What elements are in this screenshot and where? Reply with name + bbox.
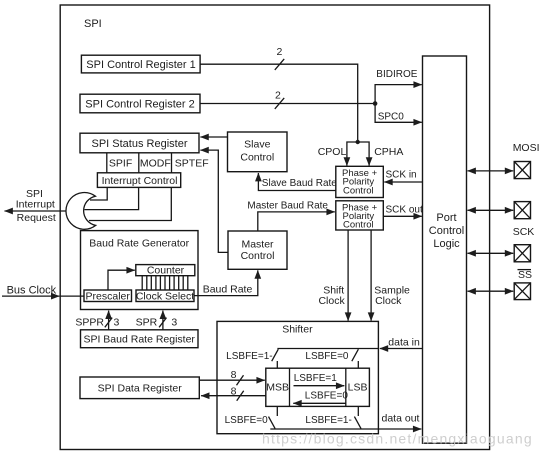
svg-text:SPI Control Register 1: SPI Control Register 1 — [86, 59, 195, 71]
Phase + Polarity Control 1 (U-phase1) — [336, 166, 384, 197]
wire+arrow: prescaler to counter — [108, 270, 135, 290]
wire: control register 1 to CPOL/CPHA junction — [200, 64, 358, 142]
svg-text:LSBFE=1: LSBFE=1 — [294, 373, 338, 384]
wire+arrow: SCK out from Phase+Polarity 2 to Port Control Logic — [383, 215, 422, 217]
Baud Rate Generator box — [81, 231, 199, 310]
wire+arrow: data out to Port Control Logic — [270, 412, 421, 429]
svg-text:Clock: Clock — [375, 295, 402, 307]
svg-text:LSBFE=0: LSBFE=0 — [305, 351, 349, 362]
bus width slash 2 on control register 2 wire — [275, 89, 284, 109]
wire: data in routing inside shifter — [277, 348, 378, 350]
svg-text:SS: SS — [518, 269, 532, 281]
svg-text:SPTEF: SPTEF — [175, 158, 209, 170]
svg-text:SPI: SPI — [84, 18, 102, 30]
wire+arrow: baud rate to master control — [194, 270, 258, 295]
svg-text:LSBFE=0: LSBFE=0 — [305, 391, 349, 402]
wire: MODF to OR gate — [85, 187, 139, 209]
svg-text:https://blog.csdn.net/mengxiao: https://blog.csdn.net/mengxiaoguang — [262, 430, 533, 446]
SPI Status Register — [80, 133, 199, 153]
node: CPOL/CPHA split junction — [356, 140, 360, 144]
wire+arrow LSBFE=1 shift direction MSB to LSB — [294, 373, 345, 386]
svg-text:Slave: Slave — [244, 139, 270, 151]
wire+arrow: data in from Port Control Logic — [380, 336, 423, 348]
SPI Data Register — [80, 377, 199, 399]
svg-text:Baud Rate: Baud Rate — [203, 284, 253, 296]
wire+arrow: master baud rate from Master Control to Phase+Polarity 2 — [258, 212, 335, 231]
wire+arrow LSBFE=0 shift direction LSB to MSB — [293, 391, 348, 404]
svg-text:MSB: MSB — [266, 381, 289, 393]
svg-text:SCK out: SCK out — [386, 205, 423, 216]
svg-text:Port: Port — [436, 212, 456, 224]
wire+arrow SPPR with width slash 3 — [75, 311, 119, 330]
svg-text:Counter: Counter — [147, 265, 185, 277]
wire CPOL arrow into Phase+Polarity Control 1 — [347, 142, 358, 166]
svg-text:BIDIROE: BIDIROE — [376, 69, 417, 80]
svg-text:Slave Baud Rate: Slave Baud Rate — [262, 178, 337, 189]
svg-text:SCK in: SCK in — [386, 169, 417, 180]
wire+arrow: MSB to data register with slash 8 — [201, 386, 266, 401]
svg-text:CPOL: CPOL — [318, 146, 347, 158]
svg-text:SPI Status Register: SPI Status Register — [92, 138, 188, 150]
Prescaler — [84, 290, 132, 302]
shift register MSB/LSB cells — [266, 368, 370, 406]
svg-text:Baud Rate Generator: Baud Rate Generator — [89, 237, 189, 249]
wire+arrow: SCK in from Port Control Logic to Phase+Polarity 1 — [384, 181, 422, 183]
svg-text:8: 8 — [231, 369, 237, 381]
wire+arrow: sample clock to shifter — [371, 230, 410, 321]
svg-text:SCK: SCK — [513, 226, 535, 238]
label SPI Interrupt Request — [16, 188, 56, 224]
svg-text:SPI Control Register 2: SPI Control Register 2 — [85, 98, 194, 110]
svg-text:LSB: LSB — [348, 381, 368, 393]
outer SPI module box — [60, 5, 489, 450]
Phase + Polarity Control 2 (U-phase2) — [336, 201, 384, 231]
svg-text:LSBFE=1-: LSBFE=1- — [305, 415, 351, 426]
svg-text:Request: Request — [17, 212, 56, 224]
svg-text:Clock Select: Clock Select — [136, 290, 194, 302]
svg-text:Logic: Logic — [433, 238, 460, 250]
svg-text:Control: Control — [343, 185, 374, 196]
svg-text:SPI Data Register: SPI Data Register — [98, 383, 183, 395]
OR gate — [66, 193, 96, 230]
switch LSBFE=0 top middle — [305, 349, 358, 368]
svg-text:MODF: MODF — [140, 158, 171, 170]
bus width slash 2 on control register 1 wire — [275, 46, 284, 70]
svg-text:Interrupt: Interrupt — [16, 198, 55, 210]
wire+arrow: data register to MSB with slash 8 — [199, 369, 264, 385]
svg-text:Prescaler: Prescaler — [86, 290, 131, 302]
svg-text:2: 2 — [277, 46, 283, 58]
svg-text:LSBFE=1-: LSBFE=1- — [226, 351, 272, 362]
Counter — [136, 265, 195, 277]
wire+arrow: to status register and master control — [200, 150, 228, 252]
svg-text:Clock: Clock — [318, 295, 345, 307]
svg-text:SPI Baud Rate Register: SPI Baud Rate Register — [83, 334, 195, 346]
svg-text:CPHA: CPHA — [374, 146, 403, 158]
pin SCK — [468, 226, 535, 262]
svg-text:SPPR: SPPR — [75, 317, 104, 329]
svg-text:Control: Control — [429, 225, 464, 237]
svg-text:2: 2 — [275, 89, 281, 101]
clock select tap lines — [142, 276, 188, 290]
Interrupt Control — [97, 173, 180, 188]
switch LSBFE=0 bottom left — [225, 406, 278, 428]
svg-text:8: 8 — [231, 386, 237, 398]
svg-text:LSBFE=0: LSBFE=0 — [225, 415, 269, 426]
Slave Control — [228, 132, 288, 172]
wire+arrow: shift clock to shifter — [318, 230, 348, 321]
svg-text:3: 3 — [114, 317, 120, 329]
switch LSBFE=1 bottom middle — [305, 406, 361, 428]
SPI Control Register 1 — [81, 55, 200, 73]
SPI Baud Rate Register — [81, 330, 199, 348]
svg-text:data in: data in — [388, 336, 420, 348]
svg-text:Control: Control — [241, 250, 275, 262]
svg-text:SPR: SPR — [136, 317, 158, 329]
svg-text:Control: Control — [343, 220, 374, 231]
Shifter box — [217, 321, 378, 433]
switch LSBFE=1 top left — [226, 349, 278, 368]
wire CPHA arrow into Phase+Polarity Control 1 — [358, 142, 369, 166]
pin MOSI — [468, 142, 540, 179]
wire SPC0 arrow into Port Control Logic — [375, 104, 422, 123]
svg-text:SPC0: SPC0 — [378, 112, 405, 123]
pin SS (active low) — [468, 269, 533, 300]
wire+arrow: slave control to SPI status register — [200, 136, 227, 138]
wire BIDIROE arrow into Port Control Logic — [375, 85, 422, 104]
svg-text:3: 3 — [171, 317, 177, 329]
wire+arrow SPR with width slash 3 — [136, 311, 178, 330]
svg-text:SPIF: SPIF — [109, 158, 132, 170]
status flag cells SPIF MODF SPTEF — [107, 153, 209, 173]
svg-text:Bus Clock: Bus Clock — [7, 284, 57, 296]
Master Control — [228, 231, 287, 269]
svg-text:Shifter: Shifter — [282, 323, 313, 335]
svg-text:MOSI: MOSI — [513, 142, 540, 154]
Clock Select — [136, 290, 194, 302]
wire: SPIF to OR gate — [90, 187, 107, 200]
svg-text:Master Baud Rate: Master Baud Rate — [247, 200, 328, 211]
Port Control Logic — [423, 56, 467, 443]
svg-text:data out: data out — [382, 412, 420, 424]
wire: control register 2 to BIDIROE/SPC0 junction — [200, 103, 375, 105]
SPI Control Register 2 — [80, 94, 200, 113]
svg-text:Control: Control — [240, 151, 274, 163]
wire+arrow: Bus Clock input — [2, 284, 84, 296]
pin MISO (unlabeled pad) — [468, 202, 531, 219]
node: BIDIROE/SPC0 junction — [373, 101, 378, 106]
svg-text:Master: Master — [241, 239, 274, 251]
wire: SPTEF to OR gate — [89, 187, 171, 220]
wire+arrow: SPI interrupt request output — [5, 210, 66, 212]
svg-text:Interrupt Control: Interrupt Control — [102, 175, 178, 187]
wire+arrow: slave baud rate from Phase+Polarity 1 to Slave Control — [258, 173, 335, 191]
